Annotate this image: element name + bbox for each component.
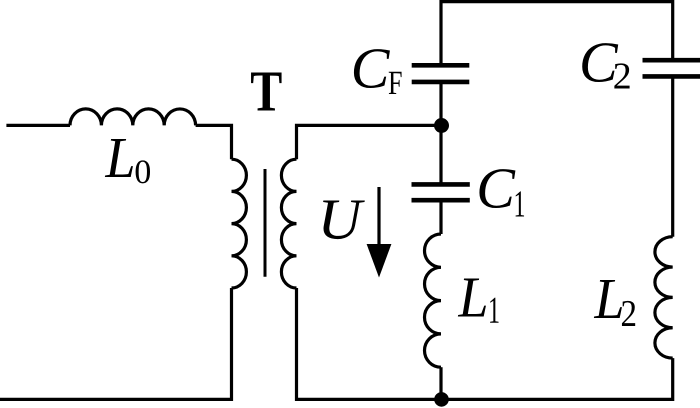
wire secondary bottom and bottom bus	[297, 288, 673, 399]
label U	[323, 201, 365, 240]
wire primary bottom and bottom-left return	[0, 288, 232, 399]
capacitor CF	[412, 65, 470, 82]
wire secondary top to node A	[297, 125, 442, 159]
top bus wire	[441, 2, 673, 66]
label CF	[354, 49, 402, 94]
wire C2 to L2	[671, 76, 674, 236]
arrow U direction head	[367, 244, 392, 278]
capacitor C1	[412, 184, 470, 200]
inductor L2	[655, 237, 673, 358]
label T	[251, 73, 282, 111]
inductor L0	[70, 109, 196, 125]
node B junction dot	[434, 392, 449, 407]
wire L1 to node B	[439, 367, 442, 399]
wire input lead	[6, 124, 70, 127]
transformer T primary coil	[232, 159, 247, 288]
label L1	[458, 279, 499, 323]
transformer secondary coil	[281, 159, 296, 288]
transformer core	[264, 169, 267, 277]
label C2	[582, 43, 629, 88]
node A junction dot	[434, 118, 449, 133]
capacitor C2	[643, 60, 700, 76]
label L2	[594, 280, 635, 326]
arrow U direction shaft	[377, 187, 380, 250]
label C1	[479, 169, 524, 216]
wire C1 to L1	[439, 200, 442, 234]
inductor L1	[425, 234, 441, 367]
wire L0 to transformer primary	[196, 125, 232, 159]
wire node A to C1	[439, 126, 442, 185]
label L0	[105, 139, 150, 183]
wire CF to node A	[439, 82, 442, 126]
